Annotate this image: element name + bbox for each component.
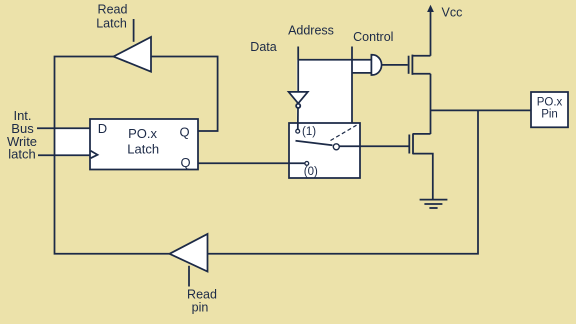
inverter U4 (points down) [289, 92, 308, 104]
svg-text:Read: Read [187, 288, 217, 302]
buffer U5: Read pin (points left) [170, 234, 208, 272]
svg-text:Q: Q [180, 125, 190, 140]
PO.x Pin box [531, 92, 568, 127]
transistor Q1 channel bar [411, 55, 413, 75]
switch control actuation (dashed) [331, 125, 357, 140]
wire: Write latch to clock input [38, 154, 90, 156]
svg-text:Address: Address [288, 24, 334, 38]
wire: Address vertical line [297, 47, 299, 93]
D-latch U2: PO.x latch box [90, 119, 198, 170]
wire: internal bus (read-pin output, left vertical, read-latch output) [55, 57, 170, 254]
switch pole circle [333, 144, 339, 150]
wire: switch pole to pull-down FET gate [339, 145, 408, 147]
wire: Vcc lead [430, 9, 432, 56]
ground symbol [420, 199, 448, 201]
wire: Read Latch label leader [133, 19, 135, 42]
switch contact terminal (1) [296, 129, 300, 133]
svg-text:PO.x: PO.x [128, 126, 157, 141]
wire: Q1 source [412, 73, 430, 75]
transistor Q2 channel bar [412, 133, 414, 154]
svg-text:D: D [98, 121, 107, 136]
wire: Q2 source to ground [413, 154, 433, 199]
inverter bubble [296, 104, 300, 108]
switch arm [296, 141, 333, 146]
svg-text:Vcc: Vcc [442, 5, 463, 19]
wire: Q2 drain [413, 133, 431, 135]
wire: Q output to read-latch buffer input [151, 57, 218, 132]
switch box S1 [289, 123, 360, 178]
bus band between Address and Control lines (white) [297, 60, 372, 123]
svg-text:Latch: Latch [96, 16, 127, 30]
wire: Control vertical line down to switch box [351, 47, 353, 124]
svg-text:pin: pin [192, 301, 209, 315]
svg-text:Data: Data [250, 40, 276, 54]
Vcc arrow head [427, 5, 434, 12]
wire: pin feedback to read-pin buffer [208, 110, 479, 253]
svg-text:(0): (0) [304, 166, 318, 178]
svg-text:Pin: Pin [541, 109, 558, 121]
wire: output node to PO.x pin box [431, 109, 532, 111]
internal bus band (white, between Int.Bus and Write latch lines) [55, 129, 90, 155]
svg-text:Latch: Latch [127, 141, 159, 156]
transistor Q1 (pull-up FET) gate bar [408, 56, 410, 74]
wire: Control branch to AND gate lower input [352, 72, 371, 74]
wire: inverter output to switch contact (1) [297, 108, 299, 129]
wire: FET midpoint vertical (Q1 source to Q2 drain) [430, 74, 432, 134]
wire: AND output to pull-up FET gate [382, 64, 408, 66]
svg-text:PO.x: PO.x [537, 97, 563, 109]
AND gate U3 [371, 55, 381, 75]
svg-text:Read: Read [98, 2, 128, 16]
wire: Address to AND gate upper input [298, 59, 371, 61]
wire: Int. Bus to D input [37, 127, 90, 129]
wire: Q1 drain [412, 55, 430, 57]
svg-text:Control: Control [353, 30, 393, 44]
clock input triangle of latch [91, 151, 98, 158]
svg-text:(1): (1) [302, 126, 316, 138]
svg-text:Q: Q [181, 155, 191, 170]
wire: Read pin label leader [188, 266, 190, 287]
switch contact terminal (0) [305, 162, 309, 166]
transistor Q2 (pull-down FET) gate bar [408, 135, 410, 154]
svg-text:latch: latch [8, 147, 35, 162]
wire: Q-bar output to switch contact (0) [198, 162, 305, 164]
buffer U1: Read latch (points left) [114, 37, 152, 72]
